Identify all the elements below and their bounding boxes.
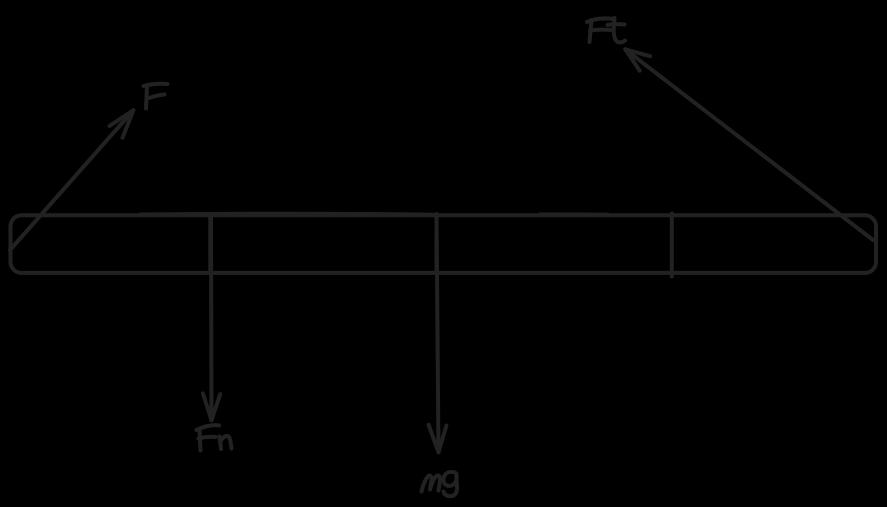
label mg: [422, 475, 441, 491]
normal force arrow Fn head: [203, 393, 220, 420]
label Ft: [587, 18, 613, 22]
weight arrow mg shaft: [437, 215, 439, 452]
beam top edge second sketch stroke: [140, 213, 434, 214]
normal force arrow Fn shaft: [209, 215, 214, 420]
force arrow F shaft: [10, 110, 133, 250]
label F: [144, 84, 168, 86]
beam divider at Fn: [208, 215, 212, 274]
weight arrow mg head: [429, 425, 447, 453]
force arrow Ft shaft: [625, 49, 873, 240]
beam divider right: [670, 214, 674, 277]
beam divider at mg: [435, 214, 439, 274]
beam top edge third sketch stroke: [540, 212, 608, 215]
beam (rounded bar): [11, 215, 877, 273]
label Fn: [197, 425, 220, 430]
force arrow Ft head: [625, 49, 650, 70]
force arrow F head: [110, 110, 134, 138]
